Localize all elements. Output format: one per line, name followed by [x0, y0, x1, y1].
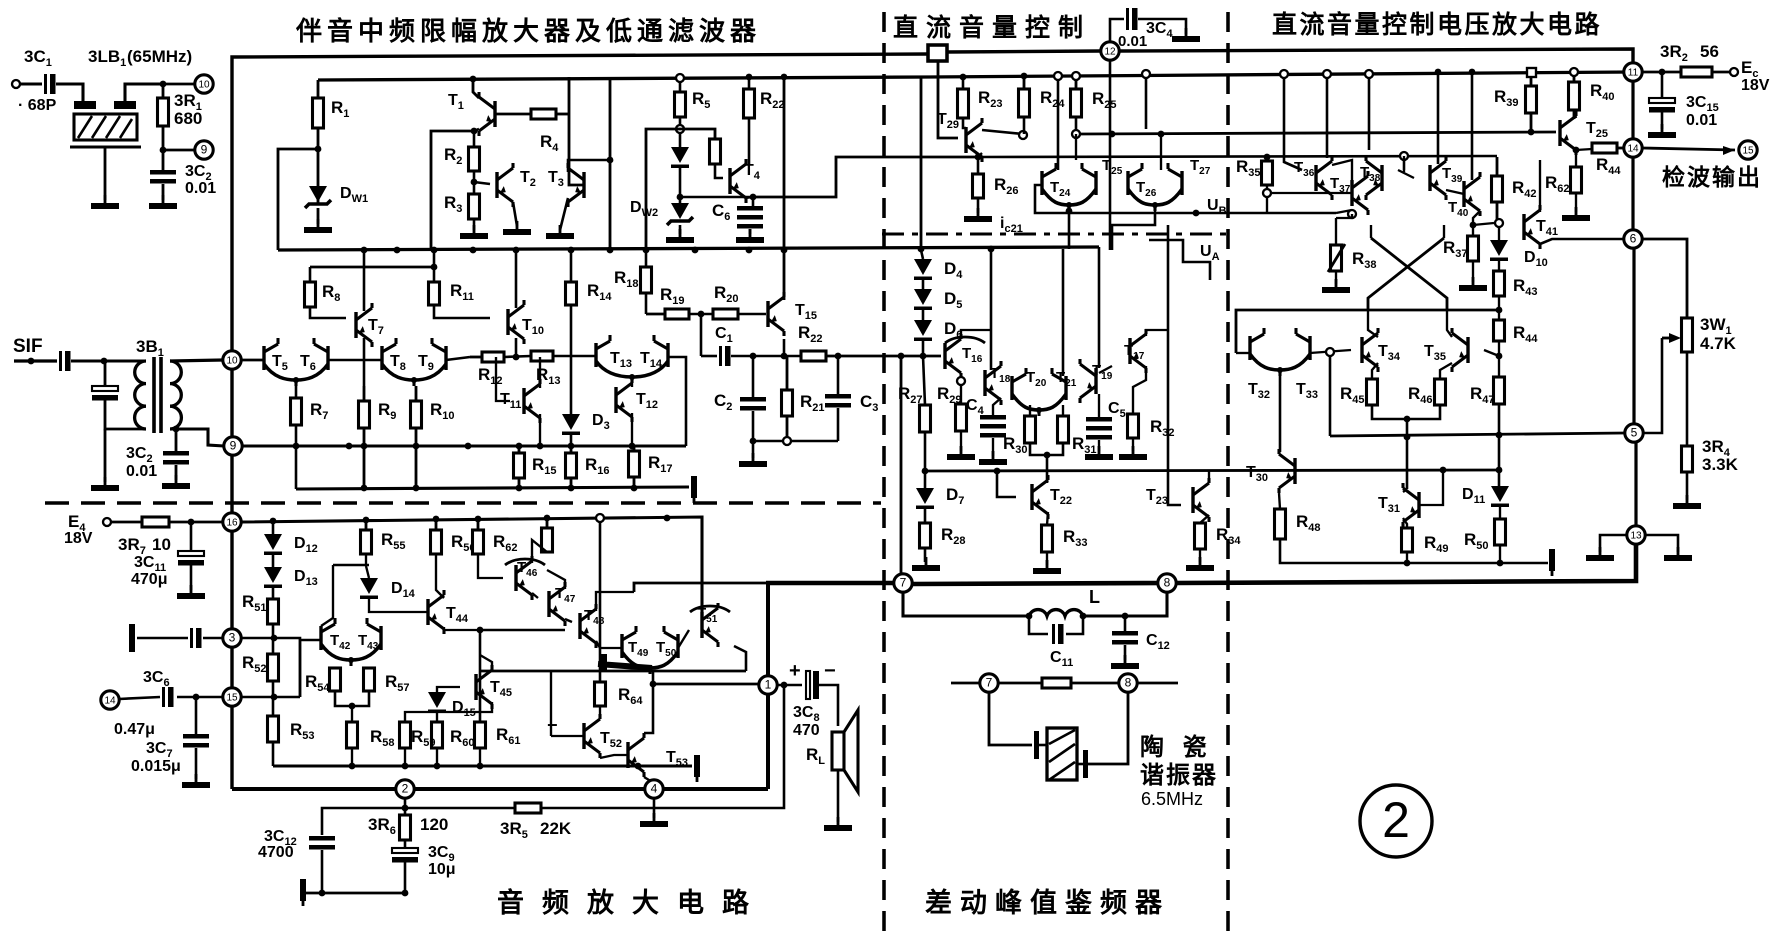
open node T16 emitter [957, 377, 965, 385]
svg-text:直流音量控制: 直流音量控制 [893, 13, 1091, 42]
resistor R15 [514, 446, 525, 489]
transistor T23 [1193, 478, 1209, 522]
wire R62 to T46 base [478, 554, 503, 578]
diode D7 [916, 488, 934, 509]
capacitor 3C9 [392, 848, 418, 863]
wire stub [1047, 470, 1048, 483]
ground crystal [91, 195, 119, 209]
resistor R62 [473, 519, 484, 554]
wire to pin 10 stub [163, 83, 195, 86]
svg-text:4.7K: 4.7K [1700, 334, 1737, 353]
wire T29 emitter [978, 153, 982, 157]
resistor R62b [1571, 167, 1582, 193]
junction DW2 [677, 194, 684, 201]
svg-text:680: 680 [174, 109, 202, 128]
wire bus to R64 [599, 522, 602, 682]
wire to R8 [309, 267, 312, 282]
wire R55 down [365, 554, 367, 566]
junction R2 R3 [471, 179, 478, 186]
resistor R59 [400, 722, 411, 748]
wire to R58 [351, 706, 353, 722]
wire to 3C7 [195, 697, 198, 734]
diode D6 [914, 320, 932, 341]
wire T32 emitter to T30 collector [1279, 376, 1282, 452]
wire R54 R57 join [335, 691, 369, 706]
transistor pair T20 T21 [1012, 368, 1066, 416]
resistor R22 [801, 351, 826, 361]
wire to shunt cap [104, 361, 107, 385]
wire bus to T36 [1284, 78, 1302, 170]
junction R24 bus [1021, 73, 1028, 80]
wire T18 rail [990, 249, 993, 370]
resistor 3R7 [142, 517, 169, 527]
wire D12 D13 [272, 555, 275, 567]
resistor R61 [475, 722, 486, 748]
transistor T48 [580, 604, 596, 648]
wire down to pin15 line [299, 655, 302, 697]
resistor R35 [1262, 161, 1273, 185]
node pin 2 [396, 780, 414, 798]
wire R64 node to pin 1 [653, 683, 759, 686]
resistor R43 [1494, 271, 1505, 296]
wire pin2 down [404, 798, 407, 815]
svg-text:−: − [824, 660, 836, 682]
junction ground rail x519 [516, 485, 523, 492]
svg-text:陶 瓷: 陶 瓷 [1140, 733, 1213, 761]
junction mid bus R18 [643, 247, 650, 254]
junction T42 T43 emitters [349, 703, 356, 710]
resistor R21 [782, 356, 793, 441]
ground C4 [979, 451, 1007, 465]
transistor T1 [479, 92, 495, 136]
capacitor 3C6 [162, 687, 174, 707]
wire T17 collector [1146, 330, 1168, 336]
wire R22 to T16 base [826, 355, 941, 358]
junction y435 [1496, 432, 1503, 439]
open node R5 bottom [676, 125, 684, 133]
speaker [832, 710, 858, 792]
resistor R22a [744, 89, 755, 118]
wire 16bus to D12 [272, 521, 275, 534]
wire secondary bottom to pin 9 [170, 429, 224, 446]
wire T6 to T8 [328, 359, 382, 362]
resistor R48 [1275, 509, 1286, 539]
transistor T22 [1032, 475, 1048, 519]
junction T4 emitter [750, 194, 757, 201]
wire R32 ground [1132, 438, 1134, 451]
resistor R63 [542, 518, 553, 552]
wire R58 ground rail [351, 748, 353, 766]
wire plate to body [1039, 744, 1047, 747]
transistor T40 [1464, 172, 1480, 216]
diode D15 [428, 692, 446, 713]
wire D5 D6 [922, 310, 925, 320]
wire T50 to T51 base [678, 630, 689, 648]
wire T12 collector [631, 377, 633, 387]
resistor R8 [305, 282, 316, 307]
resistor 3R2 [1681, 67, 1712, 77]
zener diode DW2 [667, 203, 693, 225]
wire pin15 left [177, 696, 223, 699]
transistor pair T32 T33 [1250, 328, 1310, 376]
wire to terminal [1500, 562, 1548, 565]
junction T29 emitter [975, 154, 982, 161]
open square node R39 [1527, 68, 1536, 77]
junction UB T26 [1193, 210, 1200, 217]
wire R49 bottom [1406, 552, 1408, 563]
svg-text:0.01: 0.01 [126, 463, 157, 480]
capacitor C6 [737, 206, 763, 220]
open node R25 bus [1072, 72, 1080, 80]
svg-text:3.3K: 3.3K [1702, 455, 1739, 474]
wire 3C12 down [321, 850, 324, 893]
resistor R32 [1128, 414, 1139, 438]
wire T23 rail [1167, 225, 1170, 470]
svg-text:0.01: 0.01 [1118, 33, 1147, 50]
wire D11 to R50 [1499, 507, 1501, 519]
ground bar bottom [300, 879, 306, 906]
ground 3C2 [149, 195, 177, 209]
dashed section divider right [1226, 12, 1230, 935]
wire 3R4 ground [1686, 472, 1689, 500]
svg-text:直流音量控制电压放大电路: 直流音量控制电压放大电路 [1272, 10, 1602, 39]
wire body to plate [1077, 763, 1083, 766]
resistor R39 [1526, 77, 1537, 131]
wire 3C1 to crystal [56, 84, 83, 101]
wire wiper to pin5 [1643, 338, 1662, 433]
svg-text:0.015μ: 0.015μ [131, 758, 181, 775]
dashed section divider left [882, 12, 886, 935]
node pin 1 [759, 676, 777, 694]
wire pin6 to 3W1 [1642, 239, 1687, 318]
wire to R27 [923, 356, 925, 405]
wire T42 collector [321, 565, 333, 626]
junction T39 rail [1435, 69, 1442, 76]
wire cross 1 [1371, 238, 1447, 310]
wire UA step [1149, 240, 1210, 280]
page number circle 2 [1360, 785, 1432, 857]
wire rail to T24 collector [1057, 80, 1060, 170]
potentiometer 3W1 [1662, 318, 1693, 352]
svg-text:12: 12 [1104, 47, 1116, 58]
wire T11 collector [539, 357, 541, 388]
wire rail to T19 [1098, 247, 1101, 368]
junction T40 emitter [1470, 222, 1477, 229]
ground 3C2 secondary [162, 475, 190, 489]
wire T47 to T48 [565, 619, 572, 622]
wire to 3C12 [322, 808, 405, 835]
junction mid bus x397 [394, 247, 401, 254]
junction R49 bottom [1404, 560, 1411, 567]
resistor R49 [1402, 528, 1413, 552]
svg-text:18V: 18V [64, 530, 93, 547]
dashed horizontal divider audio section [45, 501, 881, 505]
junction mid bus D4 rail [918, 246, 925, 253]
wire T52 emitter to T53 base [600, 755, 628, 758]
wire audio line to riser [634, 583, 766, 592]
wire pin7 to coil [903, 592, 1029, 616]
junction pin9 bus x349 [346, 443, 353, 450]
wire bus rail x610 [609, 77, 612, 250]
wire D7 to R28 [924, 509, 927, 523]
wire T48 emitter to T49 [596, 641, 622, 648]
wire R52 down [272, 681, 275, 716]
wire T7 emitter down to R9 [363, 338, 366, 386]
wire riser 14 to 11 [1631, 81, 1634, 139]
junction R22 bus [746, 74, 753, 81]
wire heavy bus pin7 to pin8 [912, 583, 1167, 584]
ground T2 [503, 221, 531, 235]
junction mid bus x749b [746, 247, 753, 254]
capacitor C12 [1112, 631, 1138, 645]
junction T22 top [1044, 452, 1051, 459]
wire riser 5 to 6 [1632, 248, 1635, 424]
wire to pin 9 stub [163, 149, 195, 152]
node pin 5 [1625, 424, 1643, 442]
transistor T37 [1352, 171, 1368, 215]
wire bus to R18 [645, 250, 648, 267]
wire T9 to R12 [446, 357, 470, 360]
resistor R20 [713, 309, 738, 319]
resistor R26 [973, 174, 984, 198]
open node T33 T34 [1326, 348, 1334, 356]
svg-text:10μ: 10μ [428, 861, 456, 878]
junction T24 emitter [1066, 208, 1073, 215]
wire T38 T39 base [1398, 170, 1414, 178]
wire T29 collector to R24 [982, 130, 1023, 134]
transistor pair T5 T6 [264, 338, 328, 386]
wire crystal right plate to 3R1 node [125, 84, 163, 101]
transistor T51 hood [690, 606, 730, 612]
wire C6 ground [749, 229, 752, 234]
wire bottom ground line [303, 892, 405, 895]
wire resonator line left [951, 682, 981, 685]
wire T47 collector [547, 570, 565, 589]
resistor R57 [364, 668, 375, 691]
resistor R42 [1492, 157, 1503, 219]
wire R60 ground rail [436, 748, 438, 766]
resistor R54 [330, 668, 341, 691]
resistor R40 [1569, 76, 1580, 119]
resistor R24 [1019, 76, 1030, 117]
wire speaker to ground [837, 770, 840, 822]
transistor T38 [1366, 156, 1382, 200]
diode D5 [914, 289, 932, 310]
wire T5T6 emitter to R7 [295, 386, 298, 398]
transistor pair T8 T9 [382, 338, 446, 386]
resistor R13 [531, 351, 553, 361]
open node 16bus [596, 514, 604, 522]
svg-text:8: 8 [1125, 676, 1132, 690]
ground R32 [1119, 446, 1147, 460]
wire to 3C2b [175, 429, 178, 451]
ground R3 [460, 225, 488, 239]
junction T1 emitter [471, 128, 478, 135]
transistor T17 [1130, 329, 1146, 373]
diode D12 [264, 534, 282, 555]
wire T1 to R4 [495, 113, 531, 116]
wire rail to T39 [1437, 72, 1440, 164]
node pin 14 audio [101, 691, 119, 709]
resistor R3 [469, 194, 480, 219]
ground C6 [736, 229, 764, 243]
wire 3C7 ground [195, 748, 198, 779]
open node R21 bottom [783, 437, 791, 445]
wire T3 collector [568, 160, 610, 172]
node pin 9 stub [195, 141, 213, 159]
wire pin 9 bus [242, 444, 686, 447]
capacitor C4 third plate [980, 433, 1006, 438]
wire 3C2b ground [175, 465, 178, 480]
wire T31 emitter to R49 [1403, 518, 1407, 528]
junction 3C12 bottom [319, 890, 326, 897]
capacitor C1 [719, 346, 731, 366]
wire down to R61 [479, 630, 482, 722]
resistor R55 [361, 520, 372, 554]
diode DW2 upper [671, 147, 689, 168]
resistor R1 [313, 98, 324, 128]
wire T37 emitter [1336, 210, 1352, 213]
wire mid bus y250 [278, 247, 1099, 250]
wire T48 collector loop [596, 592, 634, 611]
open node R25 bottom [1072, 130, 1080, 138]
wire T4 emitter to T29 emitter [753, 157, 978, 197]
wire riser 6 to 14 [1631, 157, 1634, 230]
wire to C3 [837, 356, 840, 394]
junction coil left [1026, 613, 1033, 620]
svg-text:音频放大电路: 音频放大电路 [497, 887, 767, 918]
junction 3C7 [193, 694, 200, 701]
wire R20 to T15 [738, 313, 766, 316]
open node T41 base [1495, 219, 1503, 227]
junction T40 rail [1469, 69, 1476, 76]
capacitor 3C4 [1126, 8, 1138, 30]
resistor T4 bias [710, 139, 721, 164]
wire R64 to T52 collector [599, 706, 601, 714]
wire bus y435 to pin5 [1330, 433, 1625, 436]
resistor 3R6 [400, 815, 411, 840]
wire to T31 base [1419, 470, 1443, 505]
junction R23 bus [960, 74, 967, 81]
ground R62b [1562, 207, 1590, 221]
node pin 4 [645, 780, 663, 798]
wire bus to T1 [473, 79, 479, 98]
svg-text:56: 56 [1700, 42, 1719, 61]
junction mid bus R11 [431, 247, 438, 254]
wire T1 emitter to R2 [474, 129, 479, 147]
wire R5 node to R18 rail [646, 129, 680, 250]
junction x784 bus [781, 74, 788, 81]
resistor R7 [291, 398, 302, 425]
wire T10 emitter [515, 338, 518, 357]
junction pin9 bus x296 [293, 443, 300, 450]
node pin 15 audio [223, 688, 241, 706]
wire rail x784 to T15 [783, 77, 786, 300]
wire C11 right [1066, 616, 1083, 634]
junction T25 emitter [1573, 147, 1580, 154]
wire to transformer [71, 359, 146, 362]
resistor R17 [629, 446, 640, 489]
wire bus to R14 [570, 250, 573, 282]
wire pin7 to resonator [989, 692, 1032, 745]
transistor T25b [1560, 111, 1576, 155]
wire to C12 [1124, 616, 1127, 631]
junction ground rail audio x480 [477, 763, 484, 770]
wire audio ground rail [273, 764, 692, 767]
wire D6 to audio line [922, 341, 925, 356]
resistor R44v [1494, 320, 1505, 341]
transistor pair T24 T25 [1042, 163, 1096, 211]
ground speaker [824, 817, 852, 831]
wire T12 emitter down [631, 413, 633, 446]
wire 3R7 to pin16 [169, 521, 226, 524]
wire rail to T40 [1471, 72, 1474, 180]
wire R2 to R3 [473, 171, 476, 194]
wire cross to T34 [1368, 310, 1378, 337]
wire pin3 left [203, 637, 223, 640]
svg-text:−: − [547, 715, 558, 735]
node pin 15 [1739, 141, 1757, 159]
wire T15 emitter down [783, 339, 786, 356]
wire to T41 base [1473, 223, 1494, 225]
junction ground rail x416 [413, 485, 420, 492]
wire R1 to DW1 [317, 128, 320, 204]
open node T37 emitter [1348, 210, 1356, 218]
transistor T29 [966, 118, 982, 162]
wire bus to T38 collector [1368, 78, 1371, 150]
svg-text:4700: 4700 [258, 844, 294, 861]
transistor pair T42 T43 [321, 618, 381, 666]
transistor T44 [428, 590, 444, 634]
wire R43 to R44 [1498, 296, 1500, 320]
junction 16bus x366 [363, 517, 370, 524]
wire to pin 8 [1071, 682, 1120, 685]
svg-text:6.5MHz: 6.5MHz [1141, 789, 1203, 809]
svg-text:0.01: 0.01 [1686, 112, 1717, 129]
transistor T39 [1430, 156, 1446, 200]
wire T14 to pin9 bus [668, 357, 686, 446]
transistor T41 [1524, 205, 1540, 249]
transistor T46 hood [505, 559, 545, 565]
junction T3 rail [607, 157, 614, 164]
wire T29 to R26 [977, 157, 980, 174]
resistor R52 [268, 654, 279, 681]
wire T26 emitter [1154, 211, 1156, 213]
wire bus to T7 [363, 250, 366, 311]
junction coil right [1080, 613, 1087, 620]
wire pin10 to T5 base [241, 359, 264, 362]
junction 3C2b [173, 426, 180, 433]
junction mid bus T18 rail [988, 246, 995, 253]
node pin 9 [224, 437, 242, 455]
svg-text:7: 7 [900, 576, 907, 590]
wire T41 collector up [1539, 160, 1541, 212]
resistor R46 [1435, 379, 1446, 405]
wire bus to UB line x1146 [1145, 78, 1148, 129]
junction pin9 bus x632 [629, 443, 636, 450]
diode D10 [1490, 240, 1508, 261]
junction y471 right [1496, 467, 1503, 474]
wire 3W1 to 3R4 [1686, 352, 1689, 446]
transistor T31 [1403, 483, 1419, 527]
wire UB line to T25 base [1080, 132, 1556, 134]
junction pin3 node [271, 635, 278, 642]
transistor T35 [1452, 328, 1468, 372]
wire R35 to UB [1266, 197, 1268, 213]
wire pin13 right ground [1645, 535, 1678, 552]
diode D11 [1491, 486, 1509, 507]
ground R26 [964, 208, 992, 222]
